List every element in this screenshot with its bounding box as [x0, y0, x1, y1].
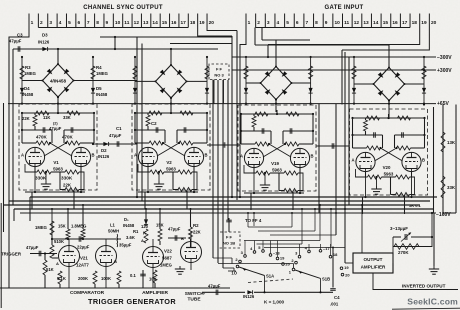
svg-text:R1: R1: [133, 229, 139, 234]
svg-text:–17: –17: [323, 246, 330, 251]
svg-text:17: 17: [402, 20, 408, 26]
svg-text:20: 20: [431, 20, 437, 26]
svg-text:3: 3: [267, 20, 270, 26]
svg-text:11K: 11K: [43, 115, 50, 120]
svg-text:18: 18: [190, 20, 196, 26]
svg-text:4: 4: [277, 20, 280, 26]
svg-text:1MEG: 1MEG: [35, 225, 47, 230]
svg-text:13: 13: [363, 20, 369, 26]
svg-text:2: 2: [40, 20, 43, 26]
svg-text:14: 14: [152, 20, 158, 26]
svg-text:IN458: IN458: [96, 92, 108, 97]
svg-text:9: 9: [325, 20, 328, 26]
svg-text:D4: D4: [24, 86, 30, 91]
svg-text:4: 4: [59, 20, 62, 26]
svg-text:R3: R3: [25, 65, 31, 70]
svg-text:IN458: IN458: [123, 223, 135, 228]
svg-text:D₁: D₁: [124, 217, 129, 222]
svg-text:B: B: [181, 236, 184, 241]
svg-text:120: 120: [141, 224, 149, 229]
svg-text:.001: .001: [330, 302, 339, 307]
svg-text:F F: F F: [216, 67, 223, 72]
svg-text:A: A: [141, 238, 144, 243]
svg-text:R4: R4: [96, 65, 102, 70]
svg-text:TRIGGER: TRIGGER: [1, 252, 22, 257]
svg-text:19: 19: [199, 20, 205, 26]
svg-text:14: 14: [373, 20, 379, 26]
svg-text:2: 2: [257, 20, 260, 26]
svg-text:19: 19: [421, 20, 427, 26]
svg-text:22K: 22K: [193, 230, 201, 235]
svg-text:12: 12: [354, 20, 360, 26]
svg-text:6: 6: [77, 20, 80, 26]
svg-text:OUTPUT: OUTPUT: [364, 257, 383, 262]
svg-text:COMPARATOR: COMPARATOR: [70, 290, 105, 296]
svg-text:(2): (2): [53, 122, 58, 126]
svg-text:K: K: [143, 231, 146, 236]
svg-text:B: B: [92, 153, 95, 158]
svg-text:1.8MEG: 1.8MEG: [71, 224, 86, 229]
svg-text:4/IN458: 4/IN458: [50, 78, 67, 83]
svg-text:1: 1: [31, 20, 34, 26]
svg-text:10: 10: [334, 20, 340, 26]
svg-text:3: 3: [49, 20, 52, 26]
svg-text:20: 20: [285, 262, 290, 267]
svg-text:TUBE: TUBE: [187, 297, 201, 303]
svg-text:NO 1B: NO 1B: [223, 241, 235, 246]
svg-text:AMPLIFIER: AMPLIFIER: [361, 265, 386, 270]
svg-text:47μμF: 47μμF: [49, 126, 62, 131]
svg-text:6: 6: [296, 20, 299, 26]
svg-text:33K: 33K: [63, 115, 71, 120]
svg-text:16: 16: [171, 20, 177, 26]
svg-text:47μμF: 47μμF: [109, 133, 122, 138]
svg-text:R2: R2: [193, 223, 199, 228]
svg-text:3.6K: 3.6K: [126, 235, 135, 240]
svg-text:SeekIC.com: SeekIC.com: [407, 297, 458, 307]
svg-text:IN126: IN126: [243, 294, 255, 299]
svg-text:12AT7: 12AT7: [76, 263, 89, 268]
svg-text:12: 12: [134, 20, 140, 26]
svg-text:8: 8: [96, 20, 99, 26]
svg-text:5: 5: [286, 20, 289, 26]
svg-text:IN458: IN458: [22, 92, 34, 97]
svg-text:IN126: IN126: [38, 40, 50, 45]
svg-text:270K: 270K: [398, 250, 409, 255]
svg-text:B: B: [422, 158, 425, 163]
svg-text:D2: D2: [101, 148, 107, 153]
svg-text:16: 16: [392, 20, 398, 26]
svg-text:A: A: [240, 154, 243, 159]
svg-text:5963: 5963: [53, 167, 63, 172]
svg-text:9: 9: [106, 20, 109, 26]
svg-text:8: 8: [315, 20, 318, 26]
svg-text:INVERTED OUTPUT: INVERTED OUTPUT: [402, 283, 446, 288]
svg-text:5963: 5963: [166, 167, 176, 172]
svg-text:B: B: [311, 154, 314, 159]
svg-text:L1: L1: [110, 223, 116, 228]
svg-text:D5: D5: [96, 86, 102, 91]
svg-text:V19: V19: [271, 161, 279, 166]
svg-text:19: 19: [344, 265, 349, 270]
svg-text:V1: V1: [53, 160, 59, 165]
svg-text:C3: C3: [17, 33, 23, 38]
svg-text:V20: V20: [383, 165, 391, 170]
svg-text:GATE INPUT: GATE INPUT: [325, 5, 364, 11]
svg-text:47μμF: 47μμF: [168, 227, 181, 232]
svg-text:15: 15: [162, 20, 168, 26]
svg-text:470K: 470K: [62, 135, 74, 140]
svg-text:S1B: S1B: [322, 277, 330, 282]
svg-text:13K: 13K: [447, 140, 456, 145]
svg-text:V2: V2: [166, 160, 172, 165]
svg-text:15K: 15K: [58, 224, 66, 229]
svg-text:22μμF: 22μμF: [77, 245, 90, 250]
svg-text:3−13μμF: 3−13μμF: [390, 226, 408, 231]
svg-text:200K: 200K: [78, 276, 88, 281]
svg-text:47μμF: 47μμF: [9, 39, 22, 44]
svg-text:330K: 330K: [35, 176, 47, 181]
svg-text:33K: 33K: [447, 185, 456, 190]
svg-text:−300V: −300V: [437, 55, 452, 61]
svg-text:100K: 100K: [101, 276, 111, 281]
svg-text:1: 1: [248, 20, 251, 26]
svg-text:19: 19: [280, 256, 285, 261]
svg-text:17: 17: [181, 20, 187, 26]
svg-text:B: B: [114, 259, 117, 264]
svg-text:C4: C4: [334, 295, 340, 300]
svg-text:C1: C1: [116, 126, 122, 131]
svg-text:1MEG: 1MEG: [24, 71, 36, 76]
svg-text:5: 5: [68, 20, 71, 26]
svg-text:15: 15: [383, 20, 389, 26]
svg-text:5963: 5963: [272, 168, 282, 173]
svg-text:5.1K: 5.1K: [57, 276, 66, 281]
svg-text:CHANNEL SYNC OUTPUT: CHANNEL SYNC OUTPUT: [83, 5, 163, 11]
svg-text:510K: 510K: [54, 239, 64, 244]
svg-text:K = 1,000: K = 1,000: [264, 300, 284, 305]
svg-text:7: 7: [306, 20, 309, 26]
svg-text:330K: 330K: [61, 176, 73, 181]
svg-text:51K: 51K: [46, 267, 54, 272]
svg-text:TO FF 4: TO FF 4: [245, 218, 262, 223]
svg-text:+300V: +300V: [437, 68, 452, 74]
svg-text:S1A: S1A: [266, 274, 274, 279]
svg-text:18: 18: [412, 20, 418, 26]
svg-text:50MH: 50MH: [108, 229, 119, 234]
svg-text:35μμF: 35μμF: [119, 243, 132, 248]
svg-text:1MEG: 1MEG: [160, 263, 172, 268]
svg-text:F F: F F: [226, 235, 233, 240]
svg-text:470K: 470K: [36, 135, 48, 140]
svg-text:D3: D3: [42, 33, 48, 38]
svg-text:B: B: [205, 153, 208, 158]
svg-text:11: 11: [344, 20, 349, 26]
svg-text:13: 13: [143, 20, 149, 26]
svg-text:20: 20: [209, 20, 215, 26]
svg-text:AMPLIFIER: AMPLIFIER: [142, 290, 168, 296]
svg-text:A: A: [352, 158, 355, 163]
svg-text:A: A: [134, 153, 137, 158]
svg-text:IN126: IN126: [98, 154, 110, 159]
svg-text:A: A: [21, 153, 24, 158]
svg-text:20: 20: [345, 272, 350, 277]
svg-text:V22: V22: [164, 249, 172, 254]
svg-text:NO 3: NO 3: [214, 73, 224, 78]
svg-text:7: 7: [87, 20, 90, 26]
svg-text:18: 18: [333, 252, 338, 257]
svg-text:C2: C2: [151, 121, 157, 126]
svg-text:TRIGGER GENERATOR: TRIGGER GENERATOR: [88, 297, 176, 306]
svg-text:0.1: 0.1: [130, 273, 136, 278]
svg-text:5963: 5963: [384, 172, 394, 177]
svg-text:1MEG: 1MEG: [96, 71, 108, 76]
svg-text:47μμF: 47μμF: [208, 284, 221, 289]
svg-text:22K: 22K: [63, 183, 72, 188]
svg-text:47μμF: 47μμF: [26, 245, 39, 250]
svg-text:5687: 5687: [162, 256, 172, 261]
svg-text:22K: 22K: [22, 116, 30, 121]
svg-text:V21: V21: [80, 256, 88, 261]
svg-text:10: 10: [115, 20, 121, 26]
svg-text:A: A: [56, 261, 59, 266]
svg-text:11: 11: [124, 20, 129, 26]
